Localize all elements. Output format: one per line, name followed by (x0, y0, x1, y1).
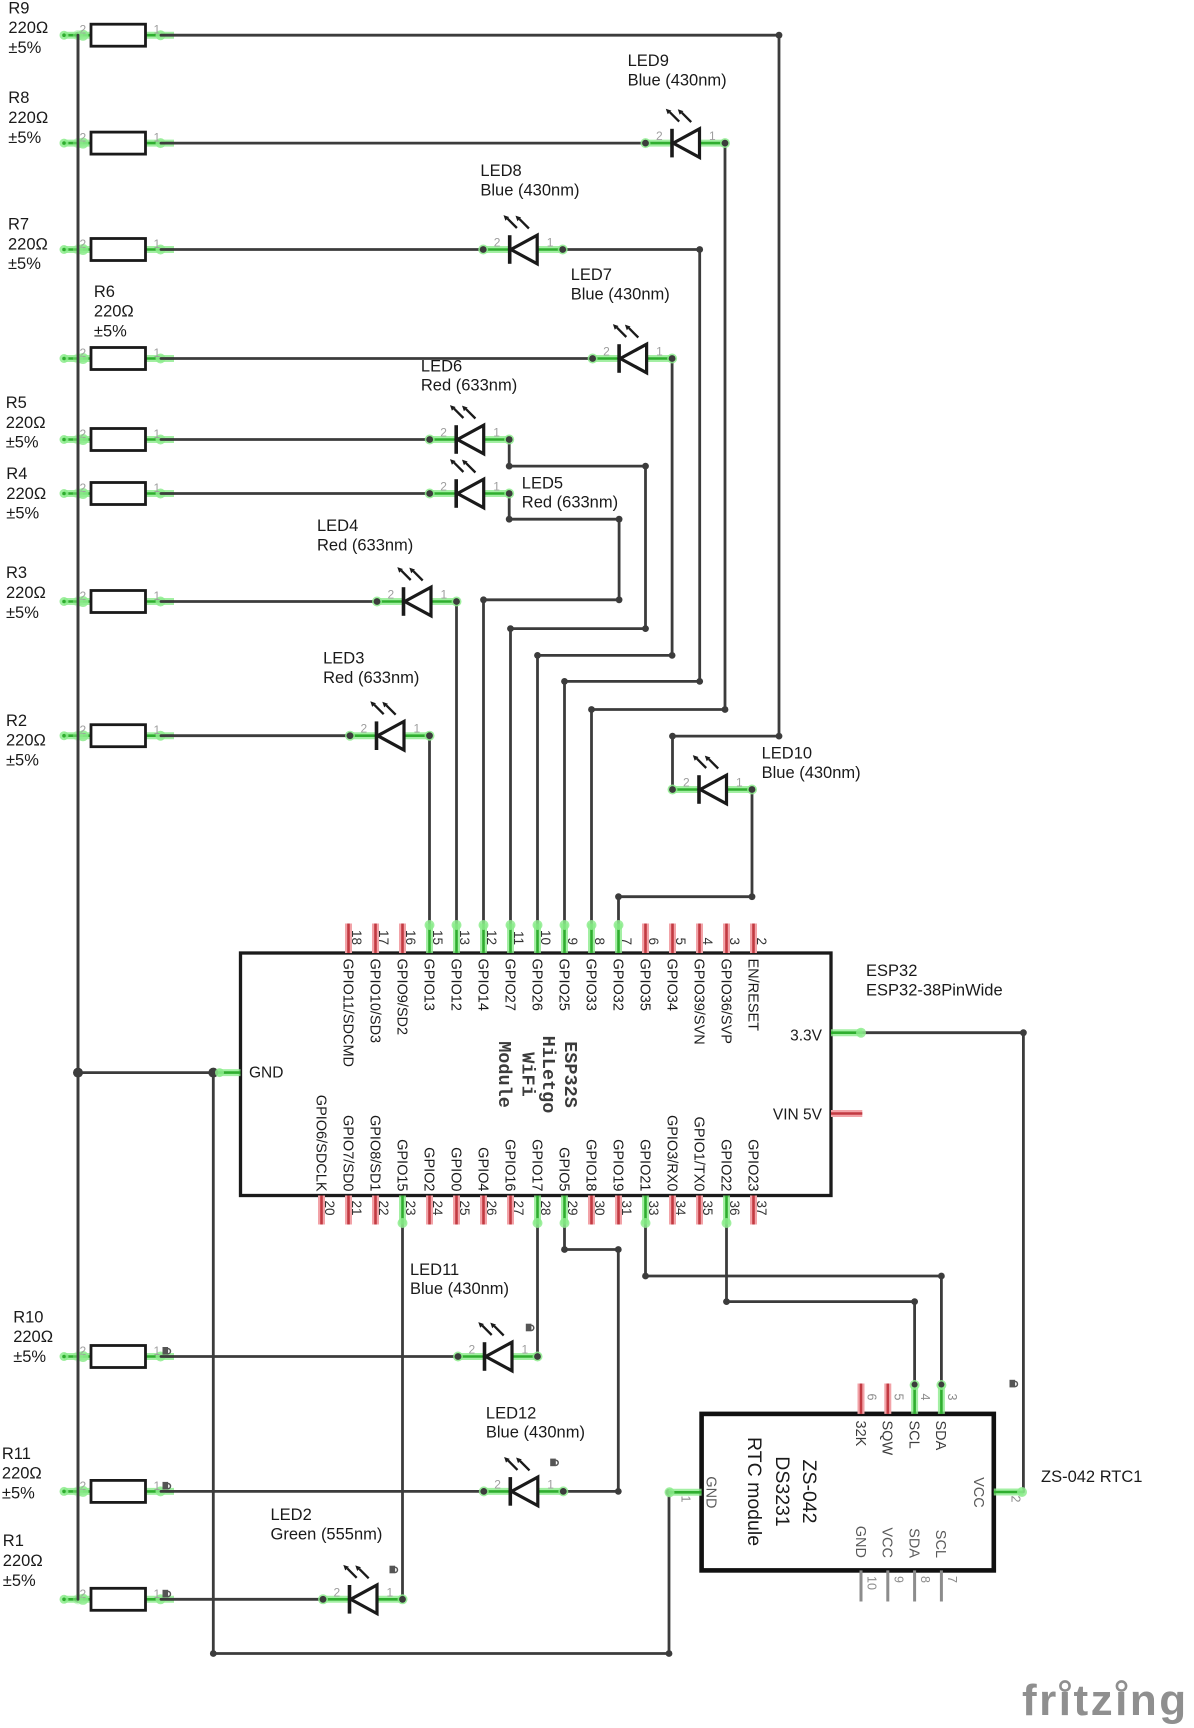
svg-text:SQW: SQW (879, 1421, 895, 1456)
label LED7 Blue (430nm) (571, 266, 670, 303)
ESP32 pin 37 GPIO23 (744, 1139, 769, 1224)
label LED10 Blue (430nm) (762, 745, 861, 782)
RTC pin 6 32K (852, 1384, 879, 1447)
bend (723, 1298, 730, 1305)
resistor R10 (60, 1346, 175, 1368)
svg-text:1: 1 (656, 345, 663, 359)
ESP32 chip title (493, 1036, 580, 1114)
svg-text:1: 1 (154, 481, 161, 495)
lock icon R10 (163, 1347, 171, 1355)
svg-text:ESP32: ESP32 (866, 962, 917, 980)
bend (507, 625, 514, 632)
bend (561, 1246, 568, 1253)
svg-text:HiLetgo: HiLetgo (537, 1036, 558, 1114)
ESP32 pin 11 GPIO27 (501, 920, 526, 1011)
svg-text:3.3V: 3.3V (790, 1028, 823, 1045)
svg-text:23: 23 (403, 1201, 418, 1216)
svg-text:GPIO27: GPIO27 (501, 959, 517, 1011)
svg-text:16: 16 (403, 930, 418, 945)
svg-text:DS3231: DS3231 (771, 1456, 793, 1526)
svg-text:9: 9 (891, 1576, 905, 1583)
RTC pin 5 SQW (879, 1384, 906, 1456)
svg-text:2: 2 (754, 937, 769, 945)
svg-text:220Ω: 220Ω (6, 414, 46, 432)
svg-text:GPIO10/SD3: GPIO10/SD3 (366, 959, 382, 1044)
bend (749, 893, 756, 900)
svg-text:GPIO23: GPIO23 (744, 1139, 760, 1191)
svg-text:LED8: LED8 (480, 162, 521, 180)
svg-text:1: 1 (387, 1585, 394, 1599)
junction bus crossing (73, 30, 83, 40)
bend (616, 596, 623, 603)
svg-text:LED6: LED6 (421, 357, 462, 375)
RTC pin 3 SDA (932, 1380, 959, 1451)
wire GND bus to ESP32 GND (78, 1071, 218, 1074)
svg-text:220Ω: 220Ω (2, 1465, 42, 1483)
svg-text:VCC: VCC (879, 1527, 895, 1558)
svg-text:R6: R6 (94, 283, 115, 301)
lock icon R1 (163, 1590, 171, 1598)
bend (642, 625, 649, 632)
svg-text:GPIO1/TX0: GPIO1/TX0 (690, 1117, 706, 1192)
svg-text:ESP32S: ESP32S (559, 1041, 580, 1108)
wire R1 to LED2 pin2 (161, 1598, 323, 1601)
wire LED11 pin1 to GPIO17 pin28 (536, 1224, 539, 1357)
svg-text:220Ω: 220Ω (6, 732, 46, 750)
svg-text:35: 35 (700, 1201, 715, 1216)
svg-text:6: 6 (865, 1394, 879, 1401)
svg-text:R9: R9 (8, 0, 29, 17)
svg-text:GPIO4: GPIO4 (474, 1147, 490, 1191)
resistor R11 (60, 1480, 175, 1502)
svg-text:1: 1 (154, 237, 161, 251)
svg-text:VCC: VCC (970, 1477, 986, 1508)
bend (669, 652, 676, 659)
label R9 220Ω ±5% (8, 0, 48, 57)
label R3 220Ω ±5% (6, 564, 46, 622)
svg-text:fritzing: fritzing (1022, 1676, 1189, 1725)
ESP32 pin 12 GPIO14 (474, 920, 499, 1011)
svg-text:1: 1 (154, 1344, 161, 1358)
svg-text:220Ω: 220Ω (3, 1552, 43, 1570)
svg-text:R3: R3 (6, 564, 27, 582)
wire GND to RTC GND (213, 1073, 669, 1654)
ESP32 pin 18 GPIO11/SDCMD (339, 924, 364, 1068)
LED LED3 (345, 701, 435, 750)
resistor R3 (60, 591, 175, 613)
resistor R7 (60, 239, 175, 261)
ESP32 module U1 body (241, 953, 832, 1196)
LED LED2 (318, 1565, 408, 1614)
svg-text:LED2: LED2 (271, 1506, 312, 1524)
svg-text:1: 1 (154, 1479, 161, 1493)
svg-text:Green (555nm): Green (555nm) (271, 1525, 383, 1543)
svg-text:ZS-042 RTC1: ZS-042 RTC1 (1041, 1468, 1142, 1486)
svg-text:7: 7 (945, 1576, 959, 1583)
RTC pin 8 SDA (905, 1528, 932, 1601)
svg-text:220Ω: 220Ω (94, 303, 134, 321)
svg-text:2: 2 (334, 1585, 341, 1599)
LED LED6 (425, 405, 515, 454)
label R11 220Ω ±5% (2, 1445, 42, 1503)
svg-text:GPIO16: GPIO16 (501, 1139, 517, 1191)
svg-text:Blue (430nm): Blue (430nm) (480, 181, 579, 199)
svg-text:2: 2 (494, 236, 501, 250)
svg-text:28: 28 (538, 1201, 553, 1216)
bend (615, 1246, 622, 1253)
svg-text:GPIO19: GPIO19 (609, 1139, 625, 1191)
wire R7 to LED8 pin2 (161, 248, 483, 251)
lock icon LED12 (550, 1459, 558, 1467)
junction bus crossing (73, 353, 83, 363)
svg-text:GPIO6/SDCLK: GPIO6/SDCLK (312, 1095, 328, 1192)
ESP32 pin 34 GPIO3/RX0 (663, 1115, 688, 1225)
label LED8 Blue (430nm) (480, 162, 579, 199)
bend (588, 706, 595, 713)
svg-text:GPIO12: GPIO12 (447, 959, 463, 1011)
ESP32 pin 24 GPIO2 (420, 1147, 445, 1224)
bend (534, 652, 541, 659)
bend (776, 32, 783, 39)
ESP32 pin 2 EN/RESET (744, 924, 769, 1032)
svg-text:GPIO32: GPIO32 (609, 959, 625, 1011)
svg-text:GPIO36/SVP: GPIO36/SVP (717, 959, 733, 1044)
svg-text:±5%: ±5% (6, 505, 39, 523)
svg-text:LED7: LED7 (571, 266, 612, 284)
LED LED4 (372, 567, 462, 616)
ESP32 3.3V pin (790, 1028, 866, 1045)
svg-text:1: 1 (547, 236, 554, 250)
svg-text:GPIO15: GPIO15 (393, 1139, 409, 1191)
label R5 220Ω ±5% (6, 394, 46, 452)
bend (506, 516, 513, 523)
svg-text:VIN 5V: VIN 5V (773, 1107, 823, 1124)
bend (616, 516, 623, 523)
label R2 220Ω ±5% (6, 712, 46, 770)
svg-text:1: 1 (154, 346, 161, 360)
wire LED10 pin1 to GPIO32 pin7 (619, 790, 753, 925)
svg-text:R1: R1 (3, 1532, 24, 1550)
svg-text:2: 2 (603, 345, 610, 359)
junction GND branch (208, 1068, 218, 1078)
svg-text:1: 1 (493, 426, 500, 440)
svg-text:1: 1 (736, 776, 743, 790)
svg-text:1: 1 (154, 427, 161, 441)
svg-text:WiFi: WiFi (516, 1052, 537, 1096)
svg-text:25: 25 (457, 1201, 472, 1216)
ESP32 pin 31 GPIO19 (609, 1139, 634, 1224)
svg-text:Blue (430nm): Blue (430nm) (571, 286, 670, 304)
svg-text:GPIO22: GPIO22 (717, 1139, 733, 1191)
label R8 220Ω ±5% (8, 89, 48, 147)
svg-text:RTC module: RTC module (743, 1437, 765, 1546)
bend (669, 733, 676, 740)
svg-text:1: 1 (679, 1496, 693, 1503)
ESP32 pin 33 GPIO21 (636, 1139, 661, 1228)
svg-text:8: 8 (592, 937, 607, 945)
svg-text:LED4: LED4 (317, 517, 358, 535)
LED LED8 (478, 215, 568, 264)
svg-text:1: 1 (154, 589, 161, 603)
wire LED12 pin1 to GPIO5 pin29 (563, 1224, 618, 1491)
svg-text:2: 2 (656, 129, 663, 143)
svg-text:GPIO17: GPIO17 (528, 1139, 544, 1191)
svg-text:18: 18 (349, 930, 364, 945)
wire R8 to LED9 pin2 (161, 142, 646, 145)
bend (776, 733, 783, 740)
svg-text:34: 34 (673, 1201, 688, 1217)
RTC module ZS-042 body (702, 1414, 994, 1571)
resistor R9 (60, 24, 175, 46)
resistor R4 (60, 483, 175, 505)
svg-text:LED5: LED5 (522, 474, 563, 492)
bend (210, 1650, 217, 1657)
svg-text:1: 1 (709, 129, 716, 143)
label LED12 Blue (430nm) (486, 1404, 585, 1441)
ESP32 pin 15 GPIO13 (420, 920, 445, 1011)
wire LED8 pin1 to GPIO25 pin9 (563, 250, 700, 925)
LED LED11 (453, 1322, 543, 1371)
svg-text:29: 29 (565, 1201, 580, 1216)
svg-text:2: 2 (469, 1343, 476, 1357)
svg-text:ZS-042: ZS-042 (798, 1460, 820, 1524)
svg-text:220Ω: 220Ω (8, 19, 48, 37)
bend (696, 678, 703, 685)
label LED9 Blue (430nm) (628, 52, 727, 89)
resistor R8 (60, 132, 175, 154)
svg-text:1: 1 (154, 723, 161, 737)
LED LED5 (425, 459, 515, 508)
bend (506, 463, 513, 470)
svg-text:GPIO13: GPIO13 (420, 959, 436, 1011)
wire GPIO22 pin36 to RTC SCL (727, 1224, 915, 1384)
svg-text:220Ω: 220Ω (6, 584, 46, 602)
lock icon LED11 (526, 1324, 534, 1332)
svg-text:17: 17 (376, 930, 391, 945)
label LED11 Blue (430nm) (410, 1261, 509, 1298)
svg-text:±5%: ±5% (13, 1348, 46, 1366)
ESP32 pin 28 GPIO17 (528, 1139, 553, 1228)
svg-text:EN/RESET: EN/RESET (744, 959, 760, 1032)
svg-text:11: 11 (511, 931, 526, 945)
RTC pin 1 GND (665, 1476, 719, 1508)
svg-text:1: 1 (441, 588, 448, 602)
LED LED12 (479, 1457, 569, 1506)
svg-text:GPIO2: GPIO2 (420, 1147, 436, 1191)
svg-text:Blue (430nm): Blue (430nm) (410, 1280, 509, 1298)
svg-text:GPIO34: GPIO34 (663, 959, 679, 1011)
svg-text:GPIO25: GPIO25 (555, 959, 571, 1011)
bend (642, 1273, 649, 1280)
wire R5 to LED6 pin2 (161, 438, 430, 441)
RTC pin 2 VCC (970, 1477, 1027, 1508)
junction bus crossing (73, 1486, 83, 1496)
label R10 220Ω ±5% (13, 1308, 53, 1366)
ESP32 pin 35 GPIO1/TX0 (690, 1117, 715, 1225)
ESP32 pin 17 GPIO10/SD3 (366, 924, 391, 1044)
svg-text:LED9: LED9 (628, 52, 669, 70)
junction bus crossing (73, 596, 83, 606)
junction bus crossing (73, 488, 83, 498)
svg-text:7: 7 (619, 937, 634, 945)
ESP32 pin 29 GPIO5 (555, 1147, 580, 1228)
svg-text:GPIO3/RX0: GPIO3/RX0 (663, 1115, 679, 1192)
ESP32 pin 7 GPIO32 (609, 920, 634, 1011)
label LED6 Red (633nm) (421, 357, 517, 394)
resistor R1 (60, 1588, 175, 1610)
svg-text:220Ω: 220Ω (8, 235, 48, 253)
svg-text:13: 13 (457, 930, 472, 945)
svg-text:SCL: SCL (905, 1421, 921, 1449)
bend (615, 1488, 622, 1495)
wire GND bus (overdraw) (77, 35, 80, 1599)
svg-text:GPIO39/SVN: GPIO39/SVN (690, 959, 706, 1045)
wire R10 to LED11 pin2 (161, 1355, 458, 1358)
wire R11 to LED12 pin2 (161, 1490, 484, 1493)
svg-text:±5%: ±5% (6, 434, 39, 452)
svg-text:2: 2 (388, 588, 395, 602)
svg-text:4: 4 (700, 937, 715, 945)
ESP32 pin 30 GPIO18 (582, 1139, 607, 1224)
svg-text:1: 1 (547, 1477, 554, 1491)
svg-text:LED12: LED12 (486, 1404, 536, 1422)
wire LED4 pin1 to GPIO12 pin13 (455, 602, 458, 925)
RTC pin 9 VCC (879, 1527, 906, 1601)
svg-text:±5%: ±5% (8, 39, 41, 57)
svg-text:27: 27 (511, 1201, 526, 1216)
GND bus wire (77, 35, 80, 1599)
svg-text:±5%: ±5% (6, 604, 39, 622)
junction bus top (75, 32, 82, 39)
svg-text:2: 2 (361, 722, 368, 736)
label LED3 Red (633nm) (323, 650, 419, 687)
label R7 220Ω ±5% (8, 216, 48, 274)
svg-text:1: 1 (154, 1587, 161, 1601)
svg-text:2: 2 (683, 776, 690, 790)
svg-text:32K: 32K (852, 1421, 868, 1447)
ESP32 pin 9 GPIO25 (555, 920, 580, 1011)
svg-text:10: 10 (538, 930, 553, 945)
ESP32 pin 23 GPIO15 (393, 1139, 418, 1228)
ESP32 pin 36 GPIO22 (717, 1139, 742, 1228)
LED LED7 (588, 324, 678, 373)
LED LED10 (668, 755, 758, 804)
svg-text:220Ω: 220Ω (8, 109, 48, 127)
svg-text:GPIO5: GPIO5 (555, 1147, 571, 1191)
svg-text:5: 5 (891, 1394, 905, 1401)
svg-text:220Ω: 220Ω (6, 485, 46, 503)
bend (911, 1298, 918, 1305)
svg-text:1: 1 (414, 722, 421, 736)
svg-text:Blue (430nm): Blue (430nm) (762, 764, 861, 782)
ESP32 pin 5 GPIO34 (663, 924, 688, 1011)
wire R2 to LED3 pin2 (161, 734, 350, 737)
bend (666, 1650, 673, 1657)
svg-text:6: 6 (646, 937, 661, 945)
svg-text:37: 37 (754, 1201, 769, 1216)
wire R3 to LED4 pin2 (161, 600, 377, 603)
svg-text:9: 9 (565, 937, 580, 945)
label R1 220Ω ±5% (3, 1532, 43, 1590)
ESP32 pin 25 GPIO0 (447, 1147, 472, 1224)
svg-text:R7: R7 (8, 216, 29, 234)
wire LED6 pin1 to GPIO27 pin11 (509, 440, 645, 925)
LED LED9 (641, 109, 731, 158)
wire LED5 pin1 to GPIO14 pin12 (484, 494, 620, 925)
svg-text:GPIO0: GPIO0 (447, 1147, 463, 1191)
wire LED9 pin1 to GPIO33 pin8 (592, 143, 726, 924)
svg-text:±5%: ±5% (3, 1572, 36, 1590)
svg-text:Red (633nm): Red (633nm) (522, 494, 618, 512)
svg-text:24: 24 (430, 1201, 445, 1217)
svg-text:GPIO11/SDCMD: GPIO11/SDCMD (339, 959, 355, 1068)
svg-text:SDA: SDA (905, 1528, 921, 1558)
bend (480, 596, 487, 603)
label R6 220Ω ±5% (94, 283, 134, 341)
junction bus crossing (73, 434, 83, 444)
bend (561, 678, 568, 685)
svg-text:GPIO7/SD0: GPIO7/SD0 (339, 1115, 355, 1192)
svg-text:R4: R4 (6, 465, 27, 483)
svg-text:Module: Module (493, 1041, 514, 1108)
svg-text:Red (633nm): Red (633nm) (323, 669, 419, 687)
svg-text:±5%: ±5% (8, 129, 41, 147)
label ESP32 ESP32-38PinWide (866, 962, 1003, 1000)
svg-text:8: 8 (918, 1576, 932, 1583)
ESP32 pin 26 GPIO4 (474, 1147, 499, 1224)
svg-text:±5%: ±5% (6, 751, 39, 769)
ESP32 GND pin (215, 1065, 283, 1082)
svg-text:1: 1 (493, 480, 500, 494)
ESP32 pin 4 GPIO39/SVN (690, 924, 715, 1045)
svg-text:±5%: ±5% (8, 255, 41, 273)
svg-text:GPIO18: GPIO18 (582, 1139, 598, 1191)
wire R9 to LED10 pin2 (161, 35, 779, 789)
svg-text:R5: R5 (6, 394, 27, 412)
svg-text:Blue (430nm): Blue (430nm) (486, 1424, 585, 1442)
svg-text:R11: R11 (2, 1445, 31, 1463)
svg-text:1: 1 (154, 131, 161, 145)
ESP32 pin 20 GPIO6/SDCLK (312, 1095, 337, 1225)
svg-text:3: 3 (945, 1394, 959, 1401)
svg-text:ESP32-38PinWide: ESP32-38PinWide (866, 982, 1003, 1000)
svg-text:GPIO8/SD1: GPIO8/SD1 (366, 1115, 382, 1192)
svg-text:22: 22 (376, 1201, 391, 1216)
svg-text:220Ω: 220Ω (13, 1328, 53, 1346)
svg-text:2: 2 (1008, 1496, 1022, 1503)
label LED4 Red (633nm) (317, 517, 413, 554)
svg-text:4: 4 (918, 1394, 932, 1401)
svg-text:GPIO21: GPIO21 (636, 1139, 652, 1191)
svg-text:10: 10 (865, 1576, 879, 1590)
svg-text:LED3: LED3 (323, 650, 364, 668)
svg-text:GPIO14: GPIO14 (474, 959, 490, 1011)
svg-text:21: 21 (349, 1201, 364, 1216)
svg-text:12: 12 (484, 930, 499, 945)
svg-text:26: 26 (484, 1201, 499, 1216)
junction bus crossing (73, 244, 83, 254)
svg-text:±5%: ±5% (2, 1485, 35, 1503)
RTC pin 4 SCL (905, 1380, 932, 1449)
junction bus bottom (75, 1596, 82, 1603)
resistor R5 (60, 429, 175, 451)
RTC chip title (743, 1437, 820, 1546)
svg-text:2: 2 (494, 1477, 501, 1491)
wire GPIO21 pin33 to RTC SDA (646, 1224, 942, 1384)
bend (938, 1273, 945, 1280)
svg-text:GND: GND (249, 1065, 283, 1082)
bend (642, 463, 649, 470)
